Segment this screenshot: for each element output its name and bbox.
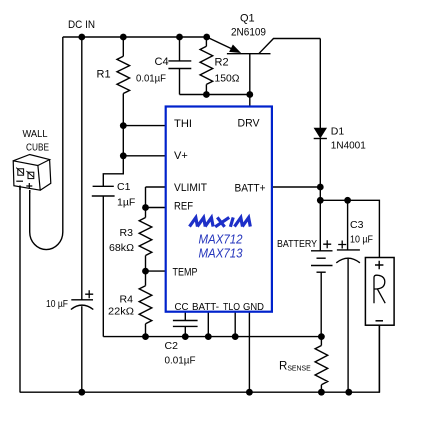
svg-text:Q1: Q1 [240,13,255,25]
svg-text:1µF: 1µF [117,197,135,209]
svg-text:C3: C3 [350,219,364,231]
svg-text:2N6109: 2N6109 [231,27,266,39]
svg-text:DC IN: DC IN [68,19,95,31]
svg-text:WALL: WALL [23,128,48,140]
svg-text:R4: R4 [120,294,134,306]
svg-text:C4: C4 [155,56,169,68]
svg-text:1N4001: 1N4001 [331,140,366,152]
svg-text:BATT+: BATT+ [235,183,266,195]
svg-text:CC: CC [175,301,189,313]
svg-text:22kΩ: 22kΩ [108,306,134,318]
svg-text:GND: GND [243,301,264,313]
svg-text:TEMP: TEMP [173,267,198,279]
svg-text:BATTERY: BATTERY [277,238,317,250]
svg-text:10 µF: 10 µF [350,234,373,246]
svg-text:0.01µF: 0.01µF [165,355,196,367]
svg-text:10 µF: 10 µF [46,298,68,310]
svg-text:R1: R1 [97,69,111,81]
svg-text:MAX712: MAX712 [199,233,243,247]
svg-text:DRV: DRV [238,118,261,130]
svg-text:BATT-: BATT- [192,301,219,313]
svg-text:D1: D1 [331,126,345,138]
svg-text:R2: R2 [215,57,229,69]
svg-text:VLIMIT: VLIMIT [174,182,207,194]
svg-text:0.01µF: 0.01µF [136,73,166,85]
svg-text:V+: V+ [174,150,188,162]
svg-text:C2: C2 [165,340,179,352]
svg-text:CUBE: CUBE [26,142,49,154]
svg-text:68kΩ: 68kΩ [109,242,134,254]
svg-text:R3: R3 [120,227,134,239]
svg-text:TLO: TLO [223,301,240,313]
svg-text:150Ω: 150Ω [215,73,240,85]
svg-text:MAX713: MAX713 [199,247,243,261]
svg-text:REF: REF [174,201,193,213]
svg-text:C1: C1 [117,181,131,193]
svg-text:THI: THI [174,118,192,130]
